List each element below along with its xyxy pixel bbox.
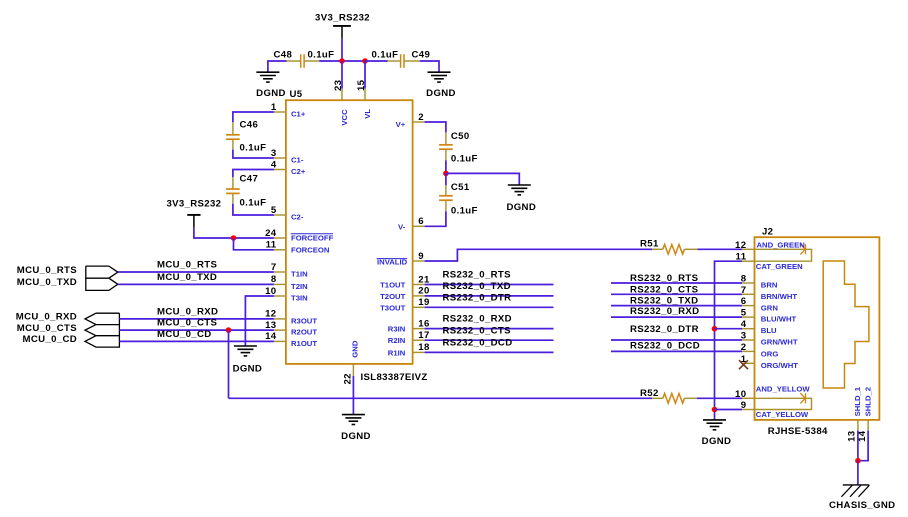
wire net RS232_0_TXD (U5 side) bbox=[425, 295, 554, 297]
pin 11 stub (U5 left) bbox=[274, 249, 286, 251]
ground DGND (top right) bbox=[428, 71, 451, 73]
node shield junction bbox=[855, 458, 861, 464]
svg-text:T3IN: T3IN bbox=[291, 294, 308, 303]
svg-text:RS232_0_RTS: RS232_0_RTS bbox=[443, 270, 512, 281]
svg-text:0.1uF: 0.1uF bbox=[451, 206, 478, 217]
svg-text:RS232_0_DTR: RS232_0_DTR bbox=[630, 324, 699, 335]
wire pin22 to ground bbox=[352, 376, 354, 415]
svg-text:U5: U5 bbox=[290, 89, 303, 100]
pin 17 stub (U5 right) bbox=[413, 339, 425, 341]
svg-text:VL: VL bbox=[363, 109, 372, 119]
svg-text:C49: C49 bbox=[412, 49, 431, 60]
svg-text:AND_GREEN: AND_GREEN bbox=[757, 241, 806, 250]
pin 12 stub (U5 left) bbox=[274, 318, 286, 320]
pin 2 stub (U5 right) bbox=[413, 121, 425, 123]
pin 13 stub (J2 bottom) bbox=[857, 420, 859, 431]
wire net RS232_0_DTR (J2 side) bbox=[611, 339, 742, 341]
capacitor C47 bbox=[232, 177, 234, 189]
power 3V3_RS232 (top) bbox=[333, 25, 351, 27]
svg-text:T1IN: T1IN bbox=[291, 270, 308, 279]
wire junction to C51 bbox=[445, 173, 447, 185]
svg-text:0.1uF: 0.1uF bbox=[308, 49, 335, 60]
wire LED green link bbox=[755, 249, 812, 261]
svg-text:BRN/WHT: BRN/WHT bbox=[761, 292, 798, 301]
pin 4 stub (U5 left) bbox=[274, 169, 286, 171]
node pin9 junction bbox=[712, 407, 718, 413]
svg-text:0.1uF: 0.1uF bbox=[451, 153, 478, 164]
svg-text:DGND: DGND bbox=[426, 88, 456, 99]
pin 8 stub (U5 left) bbox=[274, 283, 286, 285]
port MCU_0_TXD (out) bbox=[86, 278, 118, 290]
svg-text:0.1uF: 0.1uF bbox=[372, 49, 399, 60]
svg-text:AND_YELLOW: AND_YELLOW bbox=[756, 384, 811, 393]
pin 4 stub (J2) bbox=[742, 328, 755, 330]
svg-text:RS232_0_CTS: RS232_0_CTS bbox=[443, 325, 512, 336]
wire net RS232_0_CTS (U5 side) bbox=[425, 339, 554, 341]
pin 18 stub (U5 right) bbox=[413, 351, 425, 353]
node VCC junction bbox=[339, 58, 345, 64]
wire C50 to junction bbox=[445, 160, 447, 173]
svg-text:T2OUT: T2OUT bbox=[380, 292, 406, 301]
node VL junction bbox=[362, 58, 368, 64]
wire net RS232_0_TXD (J2 side) bbox=[611, 305, 742, 307]
wire 3V3 rail bbox=[319, 60, 365, 62]
svg-text:C1+: C1+ bbox=[291, 110, 306, 119]
svg-text:R2IN: R2IN bbox=[388, 336, 406, 345]
LED green symbol bbox=[800, 244, 805, 254]
wire VL drop bbox=[364, 61, 366, 89]
wire net RS232_0_CTS (J2 side) bbox=[611, 293, 742, 295]
wire pin13 down bbox=[857, 431, 859, 461]
pin 5 stub (U5 left) bbox=[274, 214, 286, 216]
wire C48 ground leg bbox=[268, 61, 287, 72]
svg-text:V+: V+ bbox=[396, 120, 406, 129]
pin 3 stub (U5 left) bbox=[274, 157, 286, 159]
wire shield to chassis bbox=[857, 461, 859, 485]
node CTS junction bbox=[226, 327, 232, 333]
capacitor C51 bbox=[445, 185, 447, 195]
svg-text:MCU_0_TXD: MCU_0_TXD bbox=[17, 277, 77, 288]
svg-text:R3OUT: R3OUT bbox=[291, 317, 317, 326]
svg-text:12: 12 bbox=[735, 240, 746, 251]
wire pin11 CAT vertical bbox=[715, 261, 743, 420]
pin 16 stub (U5 right) bbox=[413, 328, 425, 330]
svg-text:BRN: BRN bbox=[761, 281, 778, 290]
svg-text:DGND: DGND bbox=[341, 431, 371, 442]
wire CTS to R52 bbox=[229, 397, 653, 399]
capacitor C46 bbox=[232, 122, 234, 134]
svg-text:RS232_0_RXD: RS232_0_RXD bbox=[630, 306, 699, 317]
svg-text:RS232_0_RXD: RS232_0_RXD bbox=[443, 314, 512, 325]
wire pin9 to R51 bbox=[425, 249, 652, 261]
capacitor C49 bbox=[388, 60, 401, 62]
pin 10 stub (U5 left) bbox=[274, 295, 286, 297]
svg-text:C2+: C2+ bbox=[291, 167, 306, 176]
wire pin1 to C46 bbox=[233, 112, 274, 122]
svg-text:C1-: C1- bbox=[291, 156, 304, 165]
pin 3 stub (J2) bbox=[742, 339, 755, 341]
svg-text:DGND: DGND bbox=[233, 364, 263, 375]
port MCU_0_CD (in) bbox=[85, 336, 119, 347]
wire net RS232_0_RXD (U5 side) bbox=[425, 328, 554, 330]
wire MCU_0_CD to pin14 bbox=[119, 340, 274, 342]
svg-text:C2-: C2- bbox=[291, 213, 304, 222]
wire C49 ground leg bbox=[420, 61, 439, 72]
wire pin10 to ground bbox=[245, 296, 274, 346]
svg-text:CAT_GREEN: CAT_GREEN bbox=[756, 262, 803, 271]
svg-text:R51: R51 bbox=[640, 238, 659, 249]
svg-text:MCU_0_RXD: MCU_0_RXD bbox=[16, 312, 77, 323]
svg-text:ISL83387EIVZ: ISL83387EIVZ bbox=[361, 372, 428, 383]
svg-text:RS232_0_DCD: RS232_0_DCD bbox=[443, 338, 513, 349]
wire pin14 down bbox=[858, 431, 868, 461]
svg-text:0.1uF: 0.1uF bbox=[240, 143, 267, 154]
svg-text:22: 22 bbox=[342, 373, 353, 384]
pin 7 stub (J2) bbox=[742, 293, 755, 295]
capacitor C50 bbox=[445, 132, 447, 144]
svg-text:GRN/WHT: GRN/WHT bbox=[761, 337, 798, 346]
wire C47 to pin5 bbox=[233, 204, 274, 215]
svg-text:CAT_YELLOW: CAT_YELLOW bbox=[756, 410, 809, 419]
svg-text:DGND: DGND bbox=[256, 88, 286, 99]
svg-text:DGND: DGND bbox=[702, 436, 732, 447]
RJ45 jack outline bbox=[823, 261, 869, 388]
svg-text:MCU_0_CTS: MCU_0_CTS bbox=[17, 323, 77, 334]
pin 20 stub (U5 right) bbox=[413, 295, 425, 297]
svg-text:RJHSE-5384: RJHSE-5384 bbox=[768, 426, 828, 437]
svg-text:0.1uF: 0.1uF bbox=[240, 198, 267, 209]
ground DGND (top left) bbox=[256, 71, 279, 73]
wire net RS232_0_RTS (U5 side) bbox=[425, 284, 554, 286]
pin 14 stub (U5 left) bbox=[274, 340, 286, 342]
svg-text:GRN: GRN bbox=[761, 303, 779, 312]
svg-text:MCU_0_TXD: MCU_0_TXD bbox=[157, 272, 217, 283]
svg-text:ORG/WHT: ORG/WHT bbox=[761, 361, 798, 370]
ground DGND (U5) bbox=[342, 414, 365, 416]
svg-text:RS232_0_TXD: RS232_0_TXD bbox=[443, 281, 511, 292]
svg-text:RS232_0_CTS: RS232_0_CTS bbox=[630, 284, 699, 295]
svg-text:MCU_0_RXD: MCU_0_RXD bbox=[157, 306, 218, 317]
ground DGND (mid) bbox=[508, 184, 531, 186]
wire VCC drop bbox=[341, 61, 343, 89]
svg-text:MCU_0_CD: MCU_0_CD bbox=[22, 334, 77, 345]
svg-text:C46: C46 bbox=[240, 120, 259, 131]
svg-text:C47: C47 bbox=[240, 174, 259, 185]
svg-text:C50: C50 bbox=[451, 131, 470, 142]
no-connect X pin1 bbox=[739, 360, 748, 369]
pin 12 stub (J2) bbox=[742, 248, 755, 250]
svg-text:BLU: BLU bbox=[761, 326, 777, 335]
op-amp U5 ISL83387EIVZ body bbox=[286, 100, 413, 364]
svg-text:GND: GND bbox=[350, 340, 359, 358]
wire net RS232_0_DTR (U5 side) bbox=[425, 306, 554, 308]
pin 2 stub (J2) bbox=[742, 350, 755, 352]
svg-text:MCU_0_CD: MCU_0_CD bbox=[157, 329, 212, 340]
svg-text:FORCEON: FORCEON bbox=[291, 246, 330, 255]
svg-text:15: 15 bbox=[356, 79, 367, 91]
svg-text:MCU_0_RTS: MCU_0_RTS bbox=[17, 265, 77, 276]
pin 11 stub (J2) bbox=[742, 260, 755, 262]
pin 5 stub (J2) bbox=[742, 316, 755, 318]
svg-text:3V3_RS232: 3V3_RS232 bbox=[315, 12, 370, 23]
svg-text:J2: J2 bbox=[762, 226, 773, 237]
node V junction bbox=[443, 171, 449, 177]
svg-text:SHLD_1: SHLD_1 bbox=[853, 386, 862, 416]
LED yellow symbol bbox=[800, 393, 805, 403]
svg-text:R2OUT: R2OUT bbox=[291, 328, 317, 337]
wire R52 to J2 pin10 bbox=[697, 397, 742, 399]
pin 1 stub (J2) bbox=[742, 362, 755, 364]
svg-text:DGND: DGND bbox=[506, 202, 536, 213]
wire MCU_0_RTS to pin7 bbox=[118, 271, 274, 273]
pin 21 stub (U5 right) bbox=[413, 284, 425, 286]
ground CHASIS_GND bbox=[843, 484, 870, 486]
svg-text:BLU/WHT: BLU/WHT bbox=[761, 315, 797, 324]
node FORCE junction bbox=[231, 235, 237, 241]
svg-text:FORCEOFF: FORCEOFF bbox=[291, 234, 334, 243]
connector J2 body bbox=[755, 237, 880, 420]
svg-text:RS232_0_DTR: RS232_0_DTR bbox=[443, 292, 512, 303]
wire pin4 to C47 bbox=[233, 170, 274, 178]
wire LED yellow link bbox=[755, 398, 812, 409]
pin 15 VL stub bbox=[364, 89, 366, 101]
svg-text:RS232_0_DCD: RS232_0_DCD bbox=[630, 340, 700, 351]
pin 13 stub (U5 left) bbox=[274, 329, 286, 331]
pin 6 stub (U5 right) bbox=[413, 225, 425, 227]
svg-text:C51: C51 bbox=[451, 182, 470, 193]
svg-text:MCU_0_RTS: MCU_0_RTS bbox=[157, 260, 217, 271]
pin 9 stub (J2) bbox=[742, 409, 755, 411]
wire net RS232_0_DCD (U5 side) bbox=[425, 351, 554, 353]
wire net RS232_0_RXD (J2 side) bbox=[611, 316, 742, 318]
pin 8 stub (J2) bbox=[742, 282, 755, 284]
svg-text:9: 9 bbox=[418, 251, 424, 262]
wire net RS232_0_RTS (J2 side) bbox=[611, 282, 742, 284]
svg-text:3V3_RS232: 3V3_RS232 bbox=[166, 199, 221, 210]
svg-text:R3IN: R3IN bbox=[388, 325, 406, 334]
wire pin2 to C50 bbox=[425, 122, 446, 132]
svg-text:T2IN: T2IN bbox=[291, 282, 308, 291]
pin 10 stub (J2) bbox=[742, 397, 755, 399]
svg-text:T1OUT: T1OUT bbox=[380, 281, 406, 290]
pin 9 stub (U5 right) bbox=[413, 260, 425, 262]
wire C46 to pin3 bbox=[233, 150, 274, 158]
wire CTS branch down bbox=[228, 330, 230, 398]
ground DGND (J2) bbox=[703, 419, 726, 421]
svg-text:SHLD_2: SHLD_2 bbox=[864, 387, 873, 416]
wire MCU_0_TXD to pin8 bbox=[118, 283, 274, 285]
svg-text:R1IN: R1IN bbox=[388, 348, 406, 357]
pin 19 stub (U5 right) bbox=[413, 306, 425, 308]
svg-text:RS232_0_RTS: RS232_0_RTS bbox=[630, 273, 699, 284]
svg-text:6: 6 bbox=[418, 216, 424, 227]
svg-text:T3OUT: T3OUT bbox=[380, 303, 406, 312]
svg-text:23: 23 bbox=[333, 80, 344, 91]
wire MCU_0_CTS to pin13 bbox=[119, 329, 274, 331]
port MCU_0_CTS (in) bbox=[85, 325, 119, 336]
pin 7 stub (U5 left) bbox=[274, 271, 286, 273]
wire C51 to pin6 bbox=[425, 211, 446, 226]
svg-text:ORG: ORG bbox=[761, 350, 779, 359]
wire 3V3 stem bbox=[341, 38, 343, 61]
port MCU_0_RXD (in) bbox=[85, 313, 119, 324]
svg-text:MCU_0_CTS: MCU_0_CTS bbox=[157, 318, 217, 329]
svg-text:VCC: VCC bbox=[340, 109, 349, 126]
wire to pin11 FORCEON bbox=[234, 238, 274, 250]
pin 24 stub (U5 left) bbox=[274, 237, 286, 239]
svg-text:CHASIS_GND: CHASIS_GND bbox=[829, 500, 895, 511]
svg-text:V-: V- bbox=[398, 223, 406, 232]
pin 14 stub (J2 bottom) bbox=[867, 420, 869, 431]
svg-text:R52: R52 bbox=[640, 388, 659, 399]
svg-text:2: 2 bbox=[418, 112, 424, 123]
wire 3V3 to pin24 bbox=[194, 227, 274, 238]
wire junction to ground bbox=[446, 173, 519, 185]
resistor R51 bbox=[652, 248, 663, 250]
wire rail to C49 bbox=[365, 60, 388, 62]
ground DGND (T3IN) bbox=[234, 345, 257, 347]
wire MCU_0_RXD to pin12 bbox=[119, 318, 274, 320]
wire net RS232_0_DCD (J2 side) bbox=[611, 350, 742, 352]
wire pin9 stub link bbox=[715, 409, 743, 411]
node pin4 junction bbox=[712, 326, 718, 332]
svg-text:C48: C48 bbox=[274, 49, 293, 60]
port MCU_0_RTS (out) bbox=[86, 266, 118, 278]
svg-text:R1OUT: R1OUT bbox=[291, 339, 317, 348]
wire R51 to J2 pin12 bbox=[698, 248, 743, 250]
pin 1 stub (U5 left) bbox=[274, 111, 286, 113]
wire pin4 stub link bbox=[715, 328, 743, 330]
capacitor C48 bbox=[287, 60, 301, 62]
pin 22 GND stub bbox=[352, 364, 354, 376]
pin 23 VCC stub bbox=[341, 89, 343, 101]
pin 6 stub (J2) bbox=[742, 305, 755, 307]
resistor R52 bbox=[652, 397, 663, 399]
